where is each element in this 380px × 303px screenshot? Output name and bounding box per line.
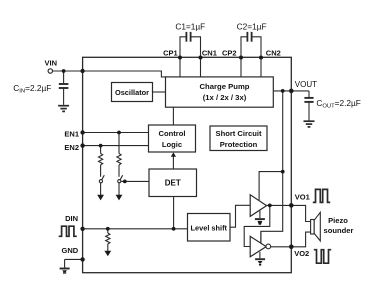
svg-text:EN2: EN2 [64,143,79,152]
node CN1 [199,56,203,60]
wire DET to control logic (arrow up) [171,152,176,169]
svg-text:EN1: EN1 [64,129,79,138]
node GND pin [80,257,84,261]
svg-text:CN2: CN2 [266,48,281,57]
svg-text:GND: GND [62,246,79,255]
ground arrow DIN [104,251,111,257]
wire buffer1 supply [259,172,283,201]
wire switch EN1 to DET [121,180,149,182]
node VOUT rail [281,89,285,93]
node EN2 tap [99,144,103,148]
svg-text:CIN=2.2µF: CIN=2.2µF [13,83,51,95]
inverter bubble U2 [266,244,271,249]
waveform VO1 [313,189,330,202]
wire CN1 stub [200,57,202,77]
node VO1 feedback [268,204,272,208]
ground CIN [58,106,69,112]
waveform DIN [59,226,77,236]
resistor R-EN1 [117,133,121,177]
wire CP2 stub [240,57,242,77]
node CP2 [239,56,243,60]
node EN1 pin [80,130,84,134]
wire DET down to DIN net [173,197,175,229]
svg-text:C2=1µF: C2=1µF [237,22,267,32]
node DIN pin [80,227,84,231]
wire EN2 [83,145,149,147]
node CN2 [259,56,263,60]
svg-text:Control: Control [159,129,186,138]
capacitor CIN [59,71,69,105]
svg-text:CP2: CP2 [222,48,237,57]
control logic block [149,125,196,152]
wire GND [65,258,83,260]
ground COUT [304,121,315,127]
buffer U2 (inverting) [250,236,266,256]
wire level shift to buffer1 input [230,205,250,227]
wire VIN [53,71,166,77]
wire buffer2 supply [260,231,262,243]
svg-text:VOUT: VOUT [295,80,317,89]
ground buffer U1 [255,211,265,225]
node DIN pulldown [106,227,110,231]
short circuit protection block [210,126,267,151]
node buffer supply [281,170,285,174]
svg-text:(1x / 2x / 3x): (1x / 2x / 3x) [203,93,247,102]
ground buffer U2 [255,252,265,266]
level shift block [188,214,231,242]
wire charge pump to control logic [172,107,174,125]
oscillator block [112,83,153,102]
wire VO2 to piezo [291,232,310,247]
svg-text:VO2: VO2 [294,249,309,258]
resistor R-DIN pulldown [106,229,110,251]
wire oscillator to charge pump [153,91,166,93]
svg-text:VO1: VO1 [295,192,310,201]
svg-text:Short Circuit: Short Circuit [216,129,262,138]
svg-text:Charge Pump: Charge Pump [200,82,250,91]
node EN1 tap [117,131,121,135]
buffer U1 (non-inverting) [250,195,266,217]
svg-text:Protection: Protection [220,140,258,149]
svg-text:Logic: Logic [162,140,182,149]
svg-text:Oscillator: Oscillator [115,88,149,97]
VIN terminal [48,69,52,73]
charge pump block [166,77,274,107]
svg-text:DIN: DIN [65,214,78,223]
wire VO1 [267,204,292,206]
ground GND pin [60,259,70,273]
node EN2 pin [80,143,84,147]
svg-text:CP1: CP1 [163,48,178,57]
svg-text:Piezo: Piezo [328,216,348,225]
IC boundary box [83,57,292,272]
switch S-EN1 [118,175,123,183]
svg-text:DET: DET [165,179,181,188]
ground arrow EN1 [116,183,123,201]
capacitor C2 [241,32,261,57]
svg-text:CN1: CN1 [202,48,217,57]
svg-text:C1=1µF: C1=1µF [175,22,205,32]
svg-text:VIN: VIN [45,59,58,68]
wire VOUT [273,90,309,92]
node VO1 pin [289,203,294,208]
piezo sounder speaker [311,212,321,241]
wire DIN [83,228,188,230]
svg-text:Level shift: Level shift [190,223,227,232]
node VIN pin [80,69,84,73]
ground arrow EN2 [97,183,104,201]
wire VO2 [271,246,292,248]
wire VOUT rail [261,91,283,243]
waveform VO2 [314,250,331,264]
node DET-DIN [172,227,176,231]
node VIN-CIN [62,69,66,73]
DET block [149,169,197,197]
wire feedback VO1 to buffer U2 input [244,205,270,246]
wire CP1 stub [179,57,181,77]
node CP1 [178,56,182,60]
wire CN2 stub [260,57,262,77]
wire VO1 to piezo [291,205,310,221]
node VO2 pin [289,245,294,250]
capacitor COUT [304,91,313,121]
switch S-EN2 [99,175,104,183]
node VOUT pin [289,89,294,94]
capacitor C1 [180,32,201,57]
resistor R-EN2 [99,146,103,177]
svg-text:sounder: sounder [324,226,354,235]
node switch-DET [123,180,127,184]
wire EN1 [83,132,149,134]
